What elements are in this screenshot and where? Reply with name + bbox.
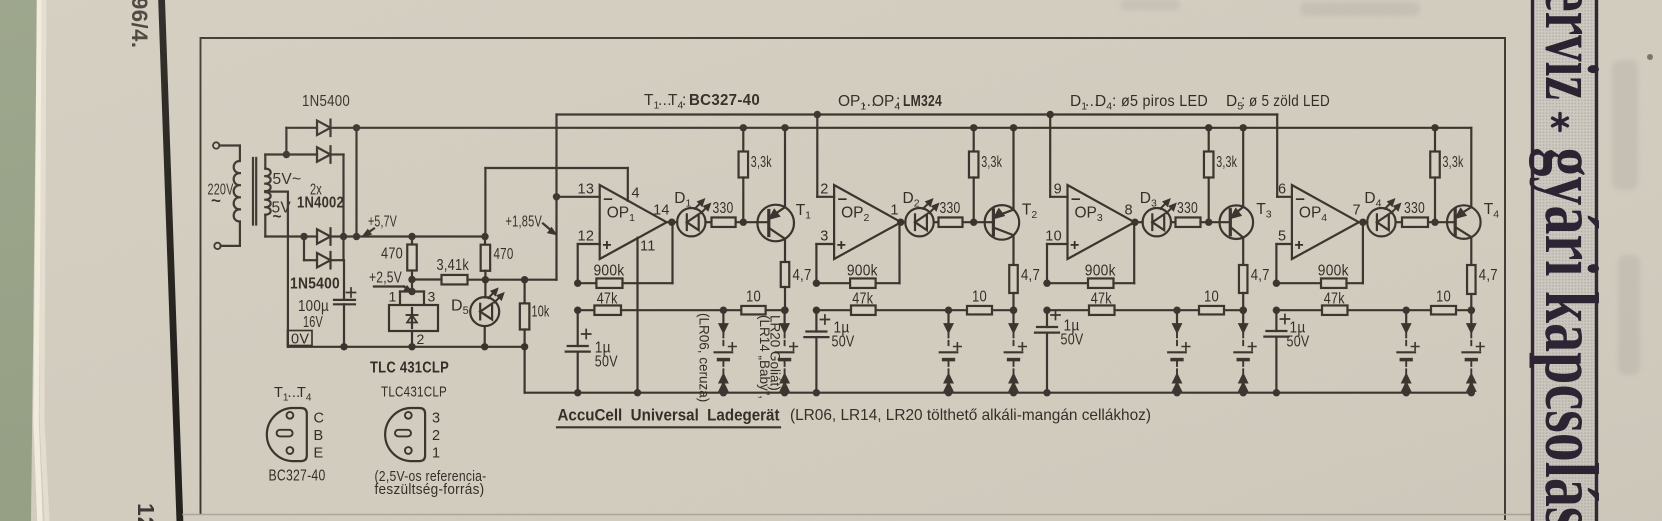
node base junction (stage 2) (970, 219, 977, 226)
battery cell A (stage 1) (720, 307, 727, 314)
pinout TLC431CLP pins (405, 412, 412, 419)
resistor 900k (stage 3) (1043, 280, 1050, 287)
op-amp U4 output wire (pin 7) (1359, 221, 1367, 223)
pinout TLC431CLP body (385, 408, 425, 461)
op-amp U4 inverting input wire (pin 6) (1276, 115, 1278, 197)
transistor Q2 emitter wire to rail (1012, 128, 1014, 210)
node secondary top junction (283, 151, 290, 158)
node divider D5 (482, 276, 489, 283)
wire bottom bus (525, 392, 1472, 394)
capacitor 1u 50V (stage 2) (815, 310, 817, 331)
transistor Q4 emitter wire to rail (1470, 128, 1472, 207)
transistor Q4 (T4) (1447, 205, 1481, 239)
resistor 900k (stage 1) (574, 280, 581, 287)
resistor 10 (stage 4) (1431, 306, 1456, 315)
node base junction (stage 4) (1431, 219, 1438, 226)
capacitor 1u 50V (stage 1) (577, 310, 579, 346)
transformer TR1 primary terminal top (213, 142, 219, 148)
wire secondary bottom (264, 215, 266, 237)
transistor Q3 emitter wire to rail (1242, 128, 1244, 207)
0V box label (288, 331, 313, 346)
node collector-sense (stage 3) (1240, 307, 1247, 314)
op-amp U3 (OP3) triangle (1068, 185, 1135, 259)
resistor 3,3k (stage 3) (1205, 124, 1212, 131)
op-amp U1 (OP1) triangle (600, 185, 667, 259)
op-amp U2 non-inverting input wire (pin 3) (816, 243, 834, 245)
node collector-sense (stage 1) (781, 307, 788, 314)
capacitor 1u 50V (stage 4) (1275, 310, 1277, 331)
op-amp U3 non-inverting input wire (pin 10) (1047, 243, 1068, 245)
wire primary top (219, 144, 240, 146)
transformer TR1 primary terminal bottom (214, 243, 220, 249)
battery cell A (stage 4) (1403, 307, 1410, 314)
page edge highlight (36, 0, 40, 521)
battery cell B (stage 1) (781, 307, 788, 314)
node row3 junctions (340, 233, 347, 240)
grey column strip (1531, 0, 1598, 521)
resistor 10k (523, 280, 525, 304)
op-amp U1 V+ pin 4 wire (627, 168, 629, 201)
battery cell B (stage 2) (1010, 307, 1017, 314)
transistor Q1 (T1) (757, 205, 794, 242)
transistor Q1 emitter wire to rail (784, 128, 786, 207)
resistor 4,7 (stage 1) (784, 239, 786, 262)
transformer TR1 secondary winding lower (265, 192, 270, 215)
wire secondary centre tap (265, 191, 288, 193)
resistor 470 (second) (484, 237, 486, 245)
resistor 10 (stage 2) (967, 306, 992, 315)
capacitor 1u 50V (stage 3) (1046, 310, 1048, 327)
node base junction (stage 3) (1205, 219, 1212, 226)
diode D-row2 1N4002 (286, 153, 317, 155)
transformer TR1 core (252, 158, 254, 225)
capacitor 100u 16V (343, 260, 345, 299)
node base junction (stage 1) (740, 219, 747, 226)
resistor 330 (stage 2) (934, 221, 939, 223)
node cap-gnd (340, 343, 347, 350)
diode D-row4 1N5400 (303, 237, 305, 261)
LED D3 (1143, 208, 1171, 236)
resistor 3,3k (stage 4) (1431, 124, 1438, 131)
resistor 47k (stage 3) (1043, 307, 1050, 314)
resistor 330 (stage 3) (1171, 221, 1176, 223)
LED D5 (484, 280, 486, 298)
resistor 4,7 (stage 4) (1470, 237, 1472, 265)
wire row2 cathode down (331, 153, 344, 155)
wire reference rail (557, 113, 1278, 115)
node collector-sense (stage 4) (1468, 307, 1475, 314)
resistor 900k (stage 4) (1273, 280, 1280, 287)
op-amp U1 V- pin 11 wire (636, 238, 638, 393)
node rail start (353, 124, 360, 131)
resistor 900k (stage 2) (813, 280, 820, 287)
op-amp U2 inverting input wire (pin 2) (816, 115, 818, 197)
wire gnd corner down to bus (523, 347, 525, 393)
bottom faint rule (183, 514, 1530, 516)
node 10k top (521, 276, 528, 283)
op-amp U3 output wire (pin 8) (1135, 221, 1143, 223)
transformer TR1 primary winding (234, 161, 240, 222)
resistor 330 (stage 4) (1396, 221, 1402, 223)
resistor 4,7 (stage 2) (1012, 235, 1014, 265)
op-amp U3 inverting input wire (pin 9) (1049, 115, 1051, 197)
wire TLC pin2 to ground (411, 331, 413, 347)
wire primary bottom (221, 245, 240, 247)
wire power rail (357, 127, 1472, 129)
resistor 47k (stage 4) (1273, 307, 1280, 314)
resistor 3,41k (412, 278, 442, 280)
op-amp U1 output wire (pin 14) (667, 221, 677, 223)
node +5,7V end (481, 233, 488, 240)
node collector-sense (stage 2) (1010, 307, 1017, 314)
transistor Q3 (T3) (1220, 205, 1254, 239)
bleed-through smudges (1120, 0, 1640, 375)
op-amp U2 output wire (pin 1) (901, 221, 905, 223)
battery cell B (stage 3) (1240, 307, 1247, 314)
resistor 10 (stage 1) (741, 306, 765, 315)
wire 0V bus (288, 346, 525, 348)
battery cell A (stage 2) (945, 307, 952, 314)
wire reference node line (485, 279, 556, 281)
resistor 10 (stage 3) (1199, 306, 1224, 315)
TLC431 U5 body (389, 305, 438, 331)
wire +5,7V output (331, 235, 486, 237)
wire secondary top to rectifier (264, 155, 266, 169)
scan background strip (left) (0, 0, 37, 521)
resistor 470 (first) (408, 233, 415, 240)
pinout BC327-40 body (267, 408, 307, 461)
op-amp U1 inverting input wire (pin 13) (557, 196, 600, 198)
resistor 3,3k (stage 1) (740, 124, 747, 131)
transformer TR1 secondary winding upper (265, 169, 270, 192)
wire row1 cathode to rail (331, 127, 357, 129)
node +2,5V (408, 276, 415, 283)
resistor 3,3k (stage 2) (970, 124, 977, 131)
op-amp U4 non-inverting input wire (pin 5) (1276, 243, 1292, 245)
battery cell A (stage 3) (1173, 307, 1180, 314)
op-amp U2 (OP2) triangle (834, 185, 901, 259)
op-amp U1 non-inverting input wire (pin 12) (578, 243, 600, 245)
wire +1,85V riser (555, 115, 557, 280)
LED D2 (905, 208, 933, 236)
wire rail drop (355, 128, 357, 237)
LED D1 (677, 208, 705, 236)
wire diode row1 feed (285, 128, 287, 155)
op-amp U4 (OP4) triangle (1292, 185, 1359, 259)
diode D-row1 1N5400 (317, 121, 331, 136)
wire TLC top node (411, 280, 413, 292)
resistor 47k (stage 1) (574, 307, 581, 314)
resistor 330 (stage 1) (706, 221, 712, 223)
diode D-row3 1N4002 (300, 233, 307, 240)
transistor Q2 (T2) (985, 205, 1020, 240)
resistor 47k (stage 2) (813, 307, 820, 314)
gutter fold line (162, 0, 181, 521)
pinout BC327-40 pins (287, 412, 294, 419)
schematic frame border (201, 38, 1506, 519)
LED D4 (1367, 208, 1395, 236)
resistor 4,7 (stage 3) (1242, 238, 1244, 266)
battery cell B (stage 4) (1468, 307, 1475, 314)
node gnd corner (521, 343, 528, 350)
